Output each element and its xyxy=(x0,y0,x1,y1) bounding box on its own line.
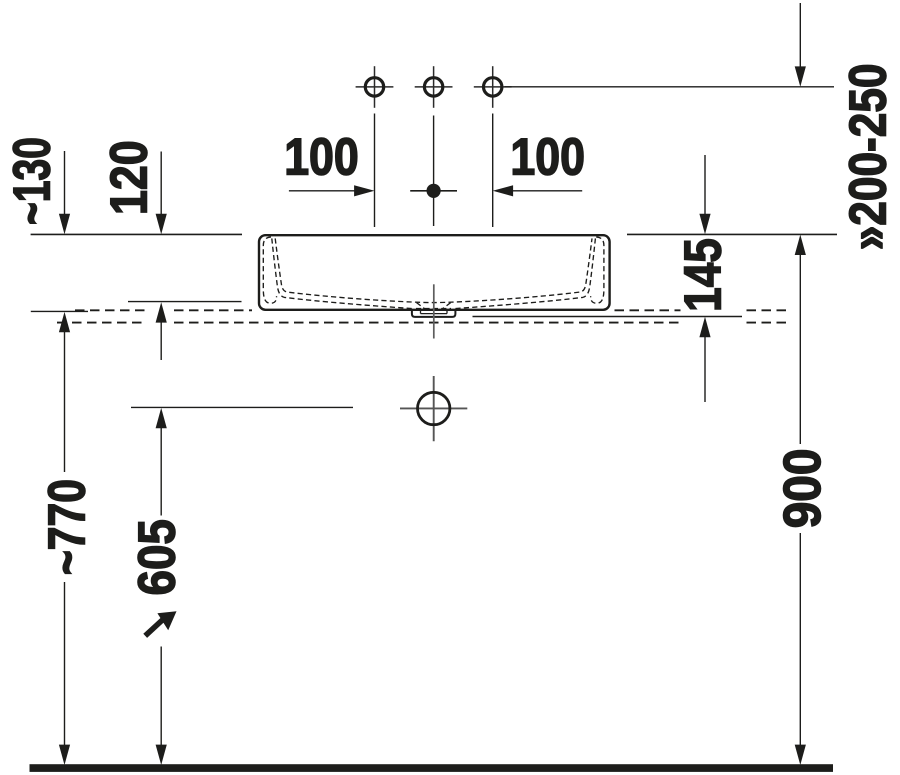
drain circle xyxy=(418,392,450,424)
drain recess diagonal right xyxy=(442,303,451,310)
svg-text:145: 145 xyxy=(674,238,732,312)
left wall outer xyxy=(263,237,276,303)
svg-text:~130: ~130 xyxy=(2,137,61,225)
underside line over drain xyxy=(416,308,451,310)
svg-text:100: 100 xyxy=(284,129,359,187)
dimension 120 xyxy=(100,140,167,360)
rim reference line left xyxy=(31,233,242,235)
centerline drop middle hole xyxy=(433,116,435,227)
dimension 100 right xyxy=(493,129,585,197)
svg-text:605: 605 xyxy=(129,519,186,595)
drain recess diagonal left xyxy=(417,303,426,310)
svg-text:100: 100 xyxy=(510,129,585,187)
right wall inner xyxy=(454,238,596,308)
center reference dot xyxy=(410,184,457,198)
right wall outer xyxy=(591,237,604,303)
drain circle crosshair xyxy=(400,376,467,441)
dimension ~770 xyxy=(39,312,97,765)
dimension ~130 xyxy=(2,137,70,234)
centerline drop right hole xyxy=(492,114,494,228)
rim reference line right xyxy=(627,233,837,235)
basin bottom reference line xyxy=(473,316,743,318)
svg-text:»200-250: »200-250 xyxy=(839,64,897,251)
dimension 605 xyxy=(129,408,186,765)
basin vertical centerline xyxy=(433,284,435,338)
drain height line xyxy=(131,406,353,408)
dimension arrow down to faucet line xyxy=(795,3,806,87)
svg-text:~770: ~770 xyxy=(39,479,97,575)
basin inner depth line xyxy=(128,301,242,303)
dimension 145 xyxy=(674,155,732,402)
bowl inner surface xyxy=(275,238,592,302)
faucet hole circle right xyxy=(474,66,512,108)
centerline drop left hole xyxy=(374,114,376,228)
drain flange xyxy=(412,310,456,317)
basin inner bowl hidden lines xyxy=(263,237,604,309)
faucet hole circle middle xyxy=(415,66,453,108)
svg-text:120: 120 xyxy=(100,140,158,215)
dashed counter line upper xyxy=(75,309,791,311)
faucet height reference line xyxy=(505,86,835,88)
left wall inner xyxy=(272,238,414,308)
dimension 900 xyxy=(773,235,831,765)
adjustability arrow symbol xyxy=(145,611,176,636)
dimension 100 left xyxy=(284,129,374,197)
dashed counter line lower xyxy=(57,322,791,324)
faucet hole circle left xyxy=(356,66,394,108)
svg-text:900: 900 xyxy=(773,448,831,528)
basin outline xyxy=(259,235,610,310)
floor bar xyxy=(30,764,834,772)
counter top reference line xyxy=(31,310,88,312)
